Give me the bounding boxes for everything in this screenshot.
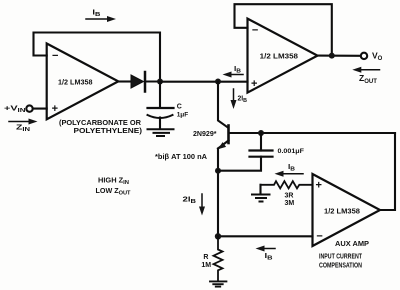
transistor Q1 2N929 [218, 126, 229, 150]
svg-text:1/2 LM358: 1/2 LM358 [260, 54, 298, 61]
node E junction dot [215, 233, 221, 239]
op-amp U2 [248, 19, 318, 93]
label 2IB down arrow upper [231, 89, 237, 109]
op-amp U1 [47, 44, 119, 120]
svg-text:IB: IB [288, 164, 295, 173]
node C junction dot base [258, 130, 264, 136]
label IB arrow at U2 input [223, 72, 244, 78]
ground below 3R [252, 195, 270, 202]
svg-text:1/2 LM358: 1/2 LM358 [58, 80, 93, 87]
wire feedback U2 [235, 4, 332, 55]
svg-text:1/2 LM358: 1/2 LM358 [324, 209, 360, 216]
diode D1 [131, 72, 145, 92]
svg-text:−: − [252, 25, 258, 37]
svg-text:IB: IB [234, 66, 241, 75]
svg-text:POLYETHYLENE): POLYETHYLENE) [74, 126, 143, 135]
ground below R [210, 281, 226, 286]
node B junction dot [215, 79, 221, 85]
svg-text:ZIN: ZIN [16, 123, 30, 134]
wire cap C2 top to base node [260, 133, 262, 151]
node D junction dot emitter-cap [215, 168, 221, 174]
label IB top arrow [86, 16, 116, 22]
wire 3R to ground [259, 185, 261, 194]
svg-text:VO: VO [372, 50, 383, 62]
terminal +VIN [26, 105, 32, 111]
svg-text:2IB: 2IB [183, 197, 197, 206]
node VO junction dot [329, 53, 335, 59]
label IB arrow above 3R [275, 171, 304, 177]
svg-text:+VIN: +VIN [4, 104, 26, 115]
svg-text:IB: IB [265, 253, 273, 262]
svg-text:COMPENSATION: COMPENSATION [319, 262, 362, 269]
svg-text:+: + [52, 103, 58, 115]
svg-text:+: + [251, 78, 257, 90]
capacitor C [148, 108, 174, 118]
svg-text:2IB: 2IB [238, 96, 248, 105]
svg-text:+: + [316, 180, 322, 192]
wire capacitor to ground [159, 118, 161, 129]
svg-text:LOW ZOUT: LOW ZOUT [96, 188, 132, 197]
wire feedback U1 top [34, 33, 161, 82]
capacitor C2 0.001uF [250, 151, 273, 157]
svg-text:HIGH ZIN: HIGH ZIN [98, 178, 129, 187]
svg-text:C: C [177, 103, 182, 110]
wire U1 output to diode [119, 80, 132, 82]
svg-text:ZOUT: ZOUT [359, 73, 377, 85]
wire emitter down [217, 149, 219, 237]
label ZIN arrow [9, 119, 38, 125]
wire diode to node A [146, 80, 160, 82]
wire node B to transistor collector [218, 82, 228, 128]
resistor R 1M [214, 236, 223, 281]
label IB arrow bottom [256, 246, 276, 252]
node A junction dot [157, 79, 163, 85]
svg-text:1μF: 1μF [177, 112, 189, 119]
wire +VIN to U1 [33, 108, 47, 110]
svg-text:INPUT CURRENT: INPUT CURRENT [319, 253, 363, 260]
svg-text:IB: IB [92, 10, 100, 19]
resistor 3R 3M [261, 181, 313, 188]
label 2IB down arrow lower [199, 194, 205, 216]
svg-text:0.001μF: 0.001μF [278, 148, 305, 155]
ground below C [148, 129, 174, 136]
svg-text:2N929*: 2N929* [193, 131, 217, 138]
svg-text:R: R [203, 254, 208, 261]
label ZOUT arrow [352, 67, 379, 73]
svg-text:AUX AMP: AUX AMP [335, 241, 369, 248]
wire node A to capacitor C [159, 82, 161, 107]
svg-text:3M: 3M [285, 200, 295, 207]
svg-text:*biβ AT 100 nA: *biβ AT 100 nA [155, 154, 207, 161]
svg-text:1M: 1M [201, 262, 211, 269]
wire node A to U2 plus input [160, 81, 248, 83]
wire U2 output [318, 55, 361, 57]
svg-text:3R: 3R [285, 193, 294, 200]
wire cap C2 bottom to emitter node [218, 157, 261, 171]
terminal VO [361, 53, 367, 59]
wire Q1 base line to right [230, 132, 395, 134]
wire bottom node to U3 minus [218, 235, 313, 237]
op-amp U3 aux [313, 174, 381, 246]
wire right vertical aux feedback [380, 133, 395, 210]
svg-text:−: − [52, 50, 58, 62]
svg-text:−: − [316, 231, 322, 243]
